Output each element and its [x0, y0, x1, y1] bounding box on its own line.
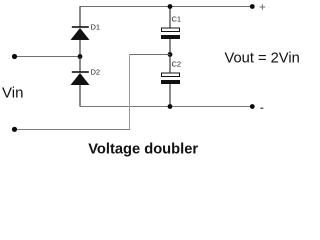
wire top bus [80, 6, 253, 8]
wire C2 bottom lead [169, 84, 171, 107]
svg-text:C2: C2 [172, 60, 182, 69]
node output plus terminal [250, 4, 255, 9]
wire vertical return link [129, 55, 131, 131]
node Vin plus terminal [12, 54, 17, 59]
svg-text:D2: D2 [91, 68, 101, 77]
node Vin minus terminal [12, 127, 17, 132]
node output minus terminal [250, 104, 255, 109]
wire Vin plus input [15, 56, 81, 58]
node D1 D2 junction [78, 54, 83, 59]
wire D2 anode lead [79, 85, 81, 107]
svg-text:C1: C1 [172, 15, 182, 24]
wire D1 cathode lead [79, 7, 81, 28]
diode D2 [71, 68, 101, 86]
label minus [260, 108, 263, 109]
svg-text:Voltage doubler: Voltage doubler [88, 142, 198, 158]
svg-text:Vout = 2Vin: Vout = 2Vin [225, 51, 300, 67]
node capacitor midpoint [168, 52, 173, 57]
wire bottom bus [80, 106, 253, 108]
diode D1 [71, 23, 101, 41]
label plus [260, 4, 266, 10]
capacitor C2 [161, 60, 181, 85]
svg-text:Vin: Vin [2, 85, 23, 102]
svg-text:D1: D1 [91, 23, 101, 32]
capacitor C1 [161, 15, 181, 40]
node bottom bus junction [168, 104, 173, 109]
node top bus junction [168, 4, 173, 9]
wire C2 top lead [169, 55, 171, 74]
wire midpoint horizontal [130, 54, 171, 56]
wire D2 cathode lead [79, 56, 81, 72]
wire C1 top lead [169, 7, 171, 29]
wire Vin minus input [15, 129, 131, 131]
wire D1 anode lead [79, 40, 81, 56]
wire C1 bottom lead [169, 39, 171, 55]
